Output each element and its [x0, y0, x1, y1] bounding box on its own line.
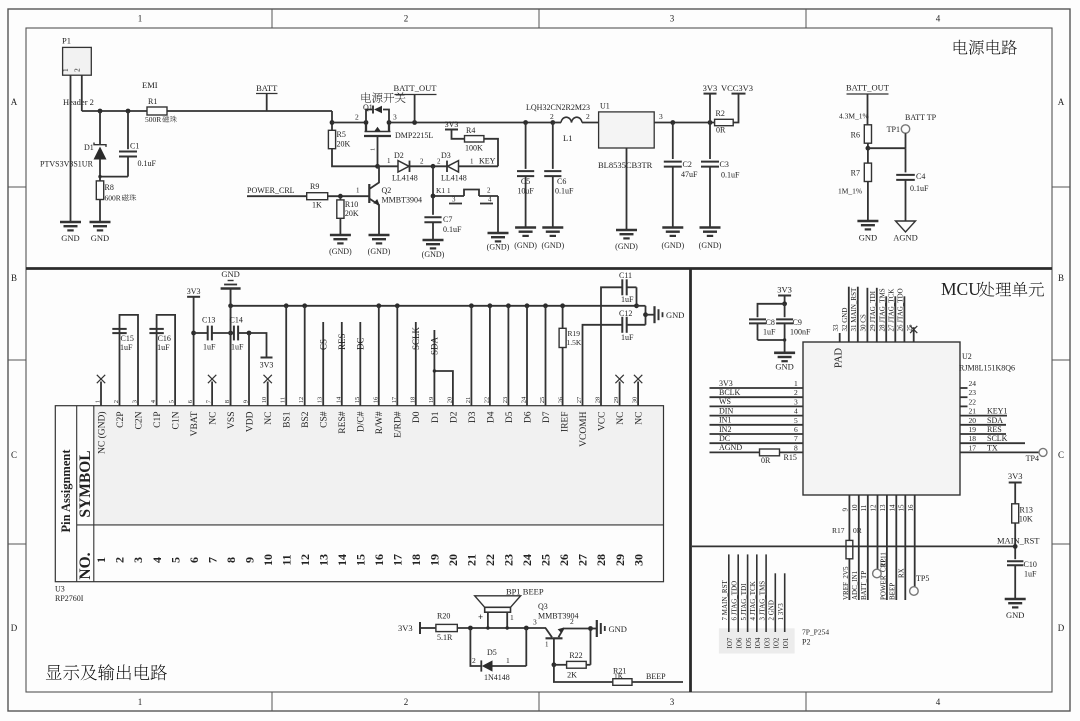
junction R10: [338, 194, 343, 199]
power VCC3V3: [721, 83, 753, 123]
svg-text:1: 1: [510, 613, 514, 622]
section divider vertical: [689, 269, 692, 693]
net SCLK pin18: [411, 322, 421, 406]
wire to TP1: [868, 147, 906, 149]
svg-text:BS2: BS2: [301, 411, 311, 428]
svg-text:2: 2: [404, 697, 409, 707]
capacitor C15: [112, 315, 138, 406]
svg-text:RES: RES: [337, 333, 347, 350]
svg-text:(GND): (GND): [699, 241, 722, 250]
svg-text:(GND): (GND): [514, 241, 537, 250]
wire C11 to bus end: [634, 287, 639, 308]
connector P1 Header 2: [61, 36, 94, 108]
net RX pin15: [898, 495, 906, 600]
resistor R21: [613, 667, 632, 686]
svg-text:33: 33: [832, 324, 840, 332]
no-connect pin30: [634, 375, 642, 406]
svg-text:+: +: [478, 612, 483, 622]
svg-text:1uF: 1uF: [621, 333, 634, 342]
svg-text:3: 3: [393, 113, 397, 122]
svg-text:(GND): (GND): [661, 241, 684, 250]
capacitor C9: [776, 304, 811, 340]
junction C13 row: [228, 331, 233, 336]
wire R13 down: [1014, 523, 1016, 559]
capacitor C7: [424, 196, 462, 240]
svg-text:C1N: C1N: [172, 411, 182, 429]
wire bus to gnd tap: [637, 306, 646, 325]
junction c9 top: [782, 301, 787, 306]
svg-text:D3: D3: [468, 411, 478, 423]
junction MAIN_RST: [1013, 544, 1018, 549]
svg-text:GND: GND: [91, 233, 109, 243]
net BEEP pin14: [889, 495, 897, 600]
ground R10: [329, 235, 352, 256]
net BEEP: [632, 672, 683, 682]
net RES pin14: [337, 322, 347, 406]
svg-text:DC: DC: [356, 337, 366, 350]
svg-text:500R: 500R: [145, 115, 161, 124]
U2 top pin 31: [850, 287, 858, 342]
svg-text:IN1: IN1: [719, 416, 731, 425]
svg-text:1uF: 1uF: [231, 343, 244, 352]
testpoint TP4: [1026, 448, 1047, 463]
svg-text:R4: R4: [466, 126, 475, 135]
diode D2 LL4148: [378, 151, 418, 183]
node BATT: [256, 83, 278, 111]
wire R9 to Q2: [328, 187, 369, 197]
svg-text:NC (GND): NC (GND): [96, 412, 107, 454]
svg-text:18: 18: [969, 434, 977, 443]
table header NO.: [77, 552, 94, 579]
U2 top pin 33: [832, 324, 840, 342]
resistor R8: [96, 177, 136, 222]
junction D1: [98, 109, 103, 114]
svg-text:20: 20: [446, 554, 460, 566]
ground R7: [857, 221, 878, 243]
svg-text:1: 1: [356, 187, 360, 195]
svg-text:9: 9: [842, 508, 850, 512]
svg-text:IREF: IREF: [560, 412, 570, 433]
svg-text:BATT TP: BATT TP: [905, 113, 937, 122]
svg-text:3: 3: [659, 112, 663, 121]
wire pin21 to bus: [470, 306, 472, 406]
svg-text:K1: K1: [436, 186, 445, 195]
resistor R20: [436, 612, 457, 643]
U2 top pin 29: [869, 288, 877, 342]
svg-text:AGND: AGND: [719, 443, 742, 452]
power 3V3 pin9: [249, 333, 273, 370]
svg-text:(GND): (GND): [329, 247, 352, 256]
wire R20 out: [457, 627, 546, 629]
svg-text:U2: U2: [962, 352, 972, 361]
transistor Q1 DMP2215L: [363, 103, 433, 166]
ground AGND: [893, 221, 918, 243]
junction bus gnd: [228, 303, 233, 308]
junction bus pin24: [525, 303, 530, 308]
svg-text:GND: GND: [221, 269, 239, 279]
svg-text:BCLK: BCLK: [719, 388, 741, 397]
svg-text:R22: R22: [569, 651, 582, 660]
svg-text:BATT_TP: BATT_TP: [860, 571, 868, 600]
svg-text:L1: L1: [563, 133, 572, 143]
svg-text:P1: P1: [62, 36, 71, 46]
svg-text:DC: DC: [719, 434, 730, 443]
net MAIN_RST: [692, 536, 1040, 547]
wire U1 gnd: [626, 148, 628, 230]
resistor R17: [832, 495, 862, 600]
net POWER_CRL pin13: [879, 495, 887, 600]
svg-text:C12: C12: [619, 309, 632, 318]
wire U1 out: [654, 112, 714, 123]
svg-text:10: 10: [851, 504, 859, 512]
svg-text:NC: NC: [209, 412, 219, 425]
svg-text:R13: R13: [1020, 506, 1033, 515]
svg-text:1M_1%: 1M_1%: [838, 187, 862, 196]
U2 top pin 32: [841, 287, 849, 342]
svg-text:12: 12: [298, 554, 312, 566]
svg-text:GND: GND: [775, 362, 793, 372]
svg-text:3V3: 3V3: [260, 361, 274, 370]
junction bus pin25: [543, 303, 548, 308]
table symbol names: [96, 411, 644, 454]
ground C7: [422, 240, 445, 259]
svg-text:1uF: 1uF: [120, 343, 133, 352]
ground C5: [514, 228, 537, 251]
svg-text:14: 14: [335, 554, 349, 566]
svg-text:4 JTAG_TCK: 4 JTAG_TCK: [749, 581, 757, 620]
svg-text:Q1: Q1: [363, 103, 373, 112]
svg-text:VDD: VDD: [246, 411, 256, 432]
svg-text:3: 3: [533, 618, 537, 627]
svg-text:1 3V3: 1 3V3: [777, 603, 785, 621]
svg-text:3V3: 3V3: [703, 83, 718, 93]
svg-text:8: 8: [794, 443, 798, 452]
no-connect pin29: [615, 375, 623, 406]
svg-text:1: 1: [506, 656, 510, 665]
junction gnd tap: [643, 312, 648, 317]
svg-text:AGND: AGND: [893, 233, 918, 243]
ground display right: [646, 306, 685, 323]
svg-text:D/C#: D/C#: [357, 411, 367, 432]
resistor R22: [554, 651, 591, 680]
wire pin25 to bus: [545, 306, 547, 406]
connector P2 7P: [719, 554, 829, 653]
U2 left pin 1 3V3: [710, 379, 804, 388]
svg-text:IO7: IO7: [726, 637, 734, 648]
ground mcu caps: [774, 353, 795, 372]
U2 left pin 4 DIN: [710, 406, 804, 415]
svg-text:R6: R6: [851, 131, 860, 140]
svg-text:MMBT3904: MMBT3904: [382, 196, 422, 205]
svg-text:BP1 BEEP: BP1 BEEP: [506, 587, 544, 597]
junction pin9: [247, 331, 252, 406]
U2 left pin 7 DC: [710, 434, 804, 443]
svg-text:Q3: Q3: [538, 602, 548, 611]
svg-text:RES: RES: [987, 425, 1002, 434]
svg-text:R5: R5: [337, 130, 346, 139]
svg-text:VCOMH: VCOMH: [579, 411, 589, 447]
svg-text:A: A: [11, 97, 18, 107]
svg-text:R9: R9: [310, 182, 319, 191]
section divider horizontal: [26, 267, 1052, 270]
svg-text:2: 2: [487, 187, 491, 195]
svg-text:2: 2: [472, 656, 476, 665]
svg-text:C6: C6: [557, 177, 566, 186]
svg-text:27: 27: [576, 554, 590, 566]
svg-text:VCC: VCC: [597, 412, 607, 432]
svg-text:1uF: 1uF: [763, 328, 776, 337]
wire corner down: [331, 111, 333, 131]
junction bus pin23: [506, 303, 511, 308]
svg-text:C: C: [11, 450, 17, 460]
svg-text:D5: D5: [487, 648, 497, 657]
junction Q3 emitter: [588, 626, 593, 631]
table pin numbers 1-30: [94, 554, 645, 566]
svg-text:C4: C4: [916, 172, 925, 181]
svg-text:R10: R10: [345, 200, 358, 209]
svg-text:C2P: C2P: [116, 412, 126, 428]
svg-text:U3: U3: [55, 585, 65, 594]
svg-text:R1: R1: [148, 97, 157, 106]
power 3V3 rst: [1008, 471, 1023, 504]
svg-text:25: 25: [539, 554, 553, 566]
svg-text:3V3: 3V3: [398, 623, 413, 633]
svg-text:CS#: CS#: [320, 411, 330, 428]
ground K1: [487, 233, 510, 252]
svg-text:22: 22: [969, 397, 977, 406]
svg-text:1: 1: [138, 697, 143, 707]
svg-text:0R: 0R: [853, 526, 862, 535]
wire P1 pin1 to GND: [70, 75, 72, 222]
svg-text:4: 4: [936, 697, 941, 707]
svg-text:PTVS3V3S1UR: PTVS3V3S1UR: [40, 160, 94, 169]
svg-text:3: 3: [794, 397, 798, 406]
svg-text:R17: R17: [832, 526, 845, 535]
ground R8: [90, 222, 111, 243]
svg-text:ADC_IN1: ADC_IN1: [851, 570, 859, 600]
svg-text:RX: RX: [898, 568, 906, 578]
svg-text:D1: D1: [431, 411, 441, 423]
svg-text:BEEP: BEEP: [646, 672, 666, 681]
svg-text:2: 2: [73, 68, 82, 72]
diode D1 PTVS3V3S1UR: [40, 111, 107, 177]
svg-text:31 MAIN_RST: 31 MAIN_RST: [850, 287, 858, 331]
U2 right pin 21 KEY1: [960, 407, 1007, 416]
power 3V3 beep: [398, 622, 435, 634]
svg-text:4: 4: [488, 196, 492, 204]
svg-text:1: 1: [387, 157, 391, 165]
svg-text:2: 2: [550, 112, 554, 121]
svg-text:6 JTAG_TDO: 6 JTAG_TDO: [731, 581, 739, 621]
junction key mid: [431, 164, 436, 169]
svg-text:23: 23: [969, 388, 977, 397]
resistor R19: [559, 306, 582, 406]
svg-text:1: 1: [447, 187, 451, 195]
svg-text:TX: TX: [987, 443, 998, 452]
svg-text:24: 24: [520, 554, 534, 566]
svg-text:DMP2215L: DMP2215L: [395, 131, 433, 140]
svg-text:D2: D2: [449, 411, 459, 423]
switch K1: [433, 166, 498, 233]
buzzer BP1 BEEP: [475, 587, 544, 630]
junction D5 left: [468, 626, 473, 631]
svg-text:B: B: [1058, 273, 1064, 283]
svg-text:3V3: 3V3: [777, 285, 792, 295]
svg-text:29 JTAG_TDI: 29 JTAG_TDI: [869, 290, 877, 331]
svg-text:0.1uF: 0.1uF: [910, 184, 929, 193]
ground C3: [699, 228, 722, 251]
svg-text:C10: C10: [1024, 560, 1037, 569]
svg-text:R19: R19: [568, 329, 581, 338]
svg-text:D: D: [1058, 623, 1065, 633]
capacitor C4: [896, 148, 929, 221]
label U3: [55, 585, 65, 594]
svg-text:C1P: C1P: [153, 412, 163, 428]
wire D2 to D3: [410, 158, 448, 167]
svg-text:4.3M_1%: 4.3M_1%: [839, 112, 869, 121]
svg-text:28: 28: [594, 554, 608, 566]
svg-text:D4: D4: [486, 411, 496, 423]
svg-text:SCLK: SCLK: [987, 434, 1008, 443]
ground Q3: [591, 620, 627, 637]
svg-text:16: 16: [372, 554, 386, 566]
resistor R5: [328, 130, 350, 149]
capacitor C8: [749, 304, 785, 340]
svg-text:P2: P2: [802, 638, 810, 647]
svg-text:1: 1: [794, 379, 798, 388]
net DC pin15: [356, 322, 366, 406]
svg-text:(GND): (GND): [487, 243, 510, 252]
svg-text:7P_P254: 7P_P254: [802, 628, 829, 637]
svg-text:C9: C9: [793, 318, 802, 327]
svg-text:22: 22: [483, 554, 497, 566]
node BATT_OUT: [394, 83, 438, 125]
svg-text:3: 3: [452, 196, 456, 204]
svg-text:20K: 20K: [345, 209, 359, 218]
svg-text:30 CS: 30 CS: [860, 314, 868, 331]
svg-text:(GND): (GND): [615, 242, 638, 251]
capacitor C5: [517, 123, 534, 228]
resistor R4: [465, 126, 484, 153]
svg-text:11: 11: [279, 554, 293, 565]
svg-text:KEY: KEY: [479, 157, 496, 166]
junction C1: [126, 109, 131, 114]
junction bus pin11: [284, 303, 289, 308]
svg-text:BATT_OUT: BATT_OUT: [846, 83, 890, 93]
wire pin8 VSS: [230, 289, 232, 406]
junction D1 R8: [98, 175, 101, 178]
U2 top pin 28: [878, 288, 886, 342]
svg-text:WS: WS: [719, 397, 731, 406]
svg-text:1: 1: [370, 148, 377, 151]
junction C6: [550, 120, 555, 125]
U2 right pin 24: [960, 379, 976, 388]
svg-text:12: 12: [870, 504, 878, 512]
ground bus wire: [231, 305, 637, 307]
junction C5: [523, 120, 528, 125]
svg-text:C: C: [1058, 450, 1064, 460]
svg-text:IO3: IO3: [763, 637, 771, 648]
svg-text:MAIN_RST: MAIN_RST: [997, 536, 1040, 546]
ground C10: [1005, 599, 1026, 620]
title power section: [954, 40, 1017, 55]
svg-text:18: 18: [409, 554, 423, 566]
svg-text:2 GND: 2 GND: [768, 600, 776, 620]
svg-text:1K: 1K: [312, 201, 322, 210]
svg-text:4: 4: [936, 14, 941, 24]
svg-text:2: 2: [355, 113, 359, 122]
svg-text:14: 14: [889, 504, 897, 512]
ground C2: [661, 228, 684, 251]
svg-text:1: 1: [94, 557, 108, 563]
svg-text:RES#: RES#: [338, 411, 348, 433]
svg-text:27 JTAG_TCK: 27 JTAG_TCK: [888, 289, 896, 332]
wire R4 to KEY: [484, 139, 498, 167]
svg-text:EMI: EMI: [142, 80, 158, 90]
svg-text:3 JTAG_TMS: 3 JTAG_TMS: [759, 581, 767, 621]
svg-text:1: 1: [545, 641, 549, 649]
svg-text:D1: D1: [84, 143, 94, 152]
wire pin11 to bus: [285, 306, 287, 406]
svg-text:1uF: 1uF: [621, 295, 634, 304]
svg-text:CS: CS: [318, 339, 328, 350]
ground C6: [541, 228, 564, 251]
svg-text:100nF: 100nF: [790, 328, 811, 337]
svg-text:TP1: TP1: [887, 125, 900, 134]
svg-text:IO6: IO6: [735, 637, 743, 648]
diode D3 LL4148: [441, 151, 498, 183]
svg-text:IO5: IO5: [745, 637, 753, 648]
svg-text:(GND): (GND): [422, 250, 445, 259]
ground GND top: [221, 269, 241, 406]
svg-text:1: 1: [138, 14, 143, 24]
resistor R10: [337, 196, 359, 235]
U2 top pin 25: [906, 324, 917, 342]
junction D5 right: [524, 626, 529, 631]
junction bus pin17: [395, 303, 400, 308]
wire R5 bottom: [332, 149, 378, 167]
svg-text:0.1uF: 0.1uF: [138, 159, 157, 168]
svg-text:3: 3: [670, 697, 675, 707]
svg-text:BEEP: BEEP: [889, 583, 897, 600]
svg-text:3V3: 3V3: [1008, 471, 1023, 481]
svg-text:GND: GND: [666, 310, 684, 320]
svg-text:C16: C16: [158, 334, 171, 343]
U2 right pin 22: [960, 397, 976, 406]
svg-text:NO.: NO.: [77, 552, 94, 579]
wire base to R21: [554, 665, 613, 682]
junction pin6 C13: [191, 331, 196, 336]
no-connect pin1: [97, 375, 105, 406]
testpoint TP5 pin16: [910, 495, 930, 595]
junction C2: [670, 120, 675, 125]
svg-text:IO4: IO4: [754, 637, 762, 648]
wire pin22 to bus: [489, 306, 491, 406]
capacitor C1: [100, 111, 157, 177]
svg-text:NC: NC: [635, 412, 645, 425]
svg-text:2: 2: [586, 112, 590, 121]
svg-text:29: 29: [613, 554, 627, 566]
svg-text:C1: C1: [130, 142, 139, 151]
svg-text:Header 2: Header 2: [63, 97, 94, 107]
junction bus pin21: [469, 303, 474, 308]
svg-text:GND: GND: [609, 624, 627, 634]
svg-text:IO1: IO1: [782, 637, 790, 648]
svg-text:Pin Assignment: Pin Assignment: [59, 449, 73, 533]
svg-text:DIN: DIN: [719, 406, 733, 415]
svg-text:2: 2: [420, 158, 424, 166]
svg-text:20: 20: [969, 416, 977, 425]
